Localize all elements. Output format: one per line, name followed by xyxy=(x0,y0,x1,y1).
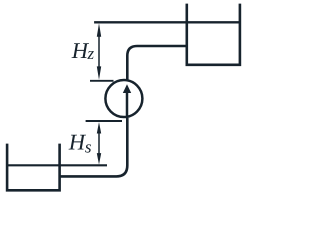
wire: discharge pipe from pump top to upper tank xyxy=(127,46,188,82)
upper reservoir tank xyxy=(187,4,240,65)
dimension arrow Hz (double headed vertical) xyxy=(97,23,101,80)
pump flow arrow (up) xyxy=(123,84,131,118)
label Hs xyxy=(69,135,91,153)
dimension arrow Hs (double headed vertical) xyxy=(97,122,101,165)
extension line at pump top level xyxy=(90,80,114,82)
wire: suction pipe from lower tank to pump bottom xyxy=(60,118,127,176)
upper water level line (extension line for Hz) xyxy=(94,21,241,23)
lower water level line (extension line for Hs) xyxy=(6,164,107,166)
lower reservoir tank xyxy=(7,144,60,191)
label Hz xyxy=(72,43,94,59)
extension line at pump bottom level xyxy=(86,120,122,122)
pump U1 circle xyxy=(105,80,142,117)
